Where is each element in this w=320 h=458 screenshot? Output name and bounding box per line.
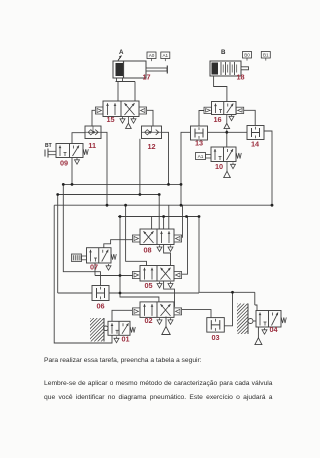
svg-text:06: 06 xyxy=(97,302,105,311)
svg-text:10: 10 xyxy=(215,162,223,171)
svg-text:B1: B1 xyxy=(263,53,269,58)
svg-text:05: 05 xyxy=(145,281,153,290)
svg-text:B0: B0 xyxy=(244,53,250,58)
svg-text:11: 11 xyxy=(88,141,96,150)
svg-text:16: 16 xyxy=(214,115,222,124)
svg-text:A: A xyxy=(119,49,124,56)
svg-text:08: 08 xyxy=(144,246,152,255)
svg-text:14: 14 xyxy=(251,140,260,149)
svg-text:18: 18 xyxy=(237,73,245,82)
svg-text:15: 15 xyxy=(107,115,115,124)
svg-text:A1: A1 xyxy=(198,154,204,160)
svg-text:A1: A1 xyxy=(162,53,168,58)
svg-text:B: B xyxy=(221,49,226,56)
svg-text:17: 17 xyxy=(143,73,151,82)
svg-text:09: 09 xyxy=(60,159,68,168)
svg-text:BT: BT xyxy=(45,143,52,149)
svg-text:02: 02 xyxy=(145,316,153,325)
svg-text:A0: A0 xyxy=(149,53,155,58)
svg-text:01: 01 xyxy=(122,335,130,344)
svg-text:04: 04 xyxy=(270,325,279,334)
svg-text:12: 12 xyxy=(148,142,156,151)
svg-text:03: 03 xyxy=(212,333,220,342)
svg-text:07: 07 xyxy=(90,263,98,272)
svg-text:13: 13 xyxy=(195,139,203,148)
